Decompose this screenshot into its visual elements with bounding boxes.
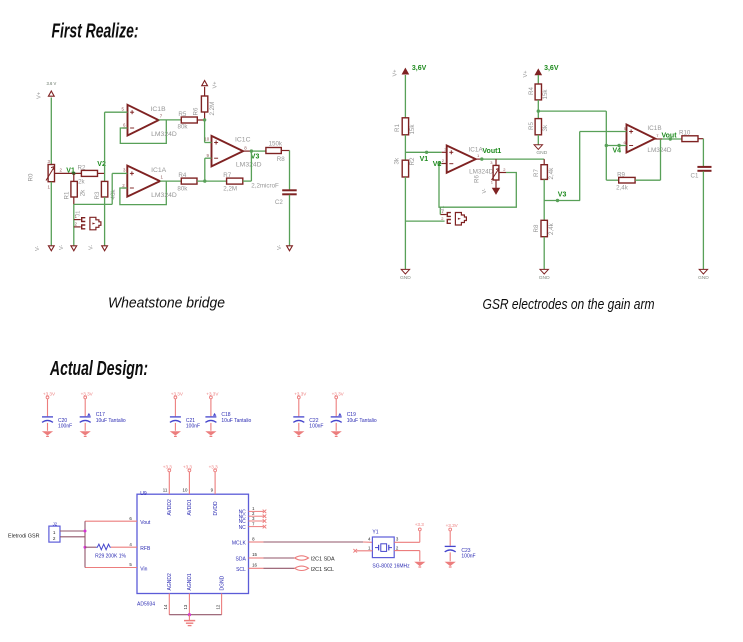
svg-text:10uF Tantalio: 10uF Tantalio	[347, 418, 377, 424]
svg-text:LM324D: LM324D	[151, 192, 177, 199]
svg-text:3.6 V: 3.6 V	[47, 81, 57, 86]
svg-text:First Realize:: First Realize:	[52, 20, 139, 43]
svg-text:Vout1: Vout1	[482, 148, 501, 155]
svg-text:+3.3V: +3.3V	[43, 392, 56, 397]
svg-text:15k: 15k	[542, 89, 549, 100]
svg-text:V-: V-	[277, 245, 283, 250]
svg-text:R9: R9	[617, 171, 625, 178]
svg-text:V+: V+	[213, 82, 219, 89]
svg-text:+3.3V: +3.3V	[446, 523, 459, 528]
svg-text:2k: 2k	[78, 178, 85, 185]
svg-text:V2: V2	[433, 161, 442, 168]
svg-text:2,4k: 2,4k	[548, 222, 555, 235]
svg-text:V1: V1	[420, 156, 429, 163]
svg-text:Eletrodi GSR: Eletrodi GSR	[8, 534, 40, 540]
svg-text:V-: V-	[89, 245, 95, 250]
svg-text:Vin: Vin	[140, 567, 147, 573]
svg-text:DVDD: DVDD	[213, 501, 219, 516]
svg-text:R6: R6	[192, 107, 199, 115]
svg-text:IC1A: IC1A	[151, 167, 167, 174]
svg-text:AGND2: AGND2	[167, 573, 173, 590]
svg-text:+3.3V: +3.3V	[206, 392, 219, 397]
svg-text:R8: R8	[277, 156, 285, 163]
svg-text:GND: GND	[539, 275, 550, 281]
svg-text:V-: V-	[482, 188, 488, 193]
svg-text:3,6V: 3,6V	[412, 65, 427, 72]
svg-text:V4: V4	[613, 148, 622, 155]
svg-text:11: 11	[163, 488, 168, 493]
svg-text:10: 10	[183, 488, 188, 493]
svg-text:3,6V: 3,6V	[544, 65, 559, 72]
svg-text:12: 12	[215, 604, 220, 609]
svg-text:IC1B: IC1B	[647, 125, 661, 132]
svg-text:Y1: Y1	[372, 529, 378, 535]
svg-text:13: 13	[183, 604, 188, 609]
svg-text:R4: R4	[178, 172, 186, 179]
svg-text:3k: 3k	[542, 124, 549, 131]
svg-text:R8: R8	[533, 224, 540, 232]
svg-text:I2C1 SDA: I2C1 SDA	[311, 557, 335, 563]
svg-text:R5: R5	[528, 122, 535, 130]
svg-text:+3.3V: +3.3V	[81, 392, 94, 397]
svg-text:V3: V3	[251, 154, 260, 161]
svg-text:R1: R1	[64, 191, 71, 199]
svg-text:15: 15	[252, 552, 257, 557]
svg-text:+3.3V: +3.3V	[332, 392, 345, 397]
svg-text:AVDD2: AVDD2	[167, 499, 173, 516]
svg-text:AD5934: AD5934	[137, 601, 155, 607]
svg-text:+3.3: +3.3	[415, 522, 425, 527]
svg-text:Wheatstone bridge: Wheatstone bridge	[108, 296, 225, 312]
svg-text:R4: R4	[528, 87, 535, 95]
svg-text:2,2M: 2,2M	[223, 185, 237, 192]
svg-text:V+: V+	[37, 92, 43, 99]
svg-text:10uF Tantalio: 10uF Tantalio	[221, 418, 251, 424]
svg-text:SCL: SCL	[236, 567, 246, 573]
svg-text:GSR electrodes on the gain arm: GSR electrodes on the gain arm	[483, 297, 655, 313]
svg-text:J2: J2	[53, 521, 58, 526]
svg-text:R2: R2	[78, 164, 86, 171]
svg-text:DGND: DGND	[219, 575, 225, 590]
svg-text:I2C1 SCL: I2C1 SCL	[311, 567, 334, 573]
svg-text:80k: 80k	[177, 186, 188, 193]
svg-text:2,4k: 2,4k	[616, 184, 629, 191]
svg-text:80k: 80k	[178, 123, 189, 130]
svg-text:NC: NC	[239, 525, 247, 531]
svg-text:GND: GND	[400, 275, 411, 281]
svg-text:1: 1	[53, 530, 56, 535]
svg-text:V-: V-	[59, 245, 65, 250]
svg-text:R3: R3	[94, 191, 101, 199]
svg-text:2,2microF: 2,2microF	[251, 183, 279, 190]
svg-text:V3: V3	[558, 191, 567, 198]
svg-text:2k: 2k	[79, 189, 86, 196]
svg-text:R0: R0	[28, 173, 35, 181]
svg-text:IC1C: IC1C	[235, 136, 251, 143]
svg-text:100nF: 100nF	[309, 423, 323, 429]
svg-text:R29 200K 1%: R29 200K 1%	[95, 553, 126, 559]
svg-text:Vout: Vout	[662, 132, 678, 139]
svg-text:R6: R6	[474, 175, 481, 183]
svg-text:+3.3V: +3.3V	[294, 392, 307, 397]
svg-text:SDA: SDA	[236, 557, 247, 563]
svg-text:C2: C2	[275, 199, 283, 206]
svg-text:R10: R10	[679, 129, 691, 136]
svg-text:14: 14	[163, 604, 168, 609]
svg-text:C1: C1	[691, 173, 699, 180]
svg-text:+3.3V: +3.3V	[171, 392, 184, 397]
svg-text:2.2M: 2.2M	[209, 102, 216, 116]
svg-text:+3.3: +3.3	[163, 464, 173, 469]
svg-text:R1: R1	[394, 124, 401, 132]
svg-text:100nF: 100nF	[186, 423, 200, 429]
svg-text:16: 16	[252, 563, 257, 568]
svg-text:MCLK: MCLK	[232, 540, 247, 546]
svg-text:+3.3: +3.3	[183, 464, 193, 469]
svg-text:U9: U9	[140, 491, 147, 497]
svg-text:3k: 3k	[393, 157, 400, 164]
svg-text:GND: GND	[698, 275, 709, 281]
svg-text:Actual Design:: Actual Design:	[49, 357, 148, 380]
svg-text:R2: R2	[409, 157, 416, 165]
svg-text:R5: R5	[178, 111, 186, 118]
svg-text:40k: 40k	[110, 189, 117, 200]
svg-text:LM324D: LM324D	[647, 147, 672, 154]
svg-text:+3.3: +3.3	[209, 464, 219, 469]
svg-text:10uF Tantalio: 10uF Tantalio	[96, 418, 126, 424]
svg-text:V-: V-	[35, 246, 41, 251]
svg-text:V+: V+	[393, 70, 399, 77]
svg-text:R7: R7	[533, 169, 540, 177]
svg-text:15k: 15k	[409, 124, 416, 135]
svg-text:100nF: 100nF	[461, 553, 475, 559]
svg-text:AGND1: AGND1	[187, 573, 193, 590]
svg-text:LM324D: LM324D	[151, 131, 177, 138]
svg-text:SG-8002 16MHz: SG-8002 16MHz	[372, 563, 410, 569]
svg-text:RFB: RFB	[140, 546, 151, 552]
svg-text:150k: 150k	[269, 141, 283, 148]
svg-text:LM324D: LM324D	[236, 161, 262, 168]
svg-text:R7: R7	[223, 172, 231, 179]
svg-text:2,4k: 2,4k	[548, 167, 555, 180]
svg-text:2: 2	[53, 536, 56, 541]
svg-text:Vout: Vout	[140, 520, 151, 526]
svg-text:100nF: 100nF	[58, 423, 72, 429]
svg-text:V+: V+	[523, 71, 529, 78]
svg-text:IC1B: IC1B	[151, 106, 167, 113]
svg-text:10: 10	[204, 137, 209, 142]
svg-text:LM324D: LM324D	[469, 169, 494, 176]
svg-text:IC1A: IC1A	[469, 146, 484, 153]
svg-text:GND: GND	[536, 150, 547, 156]
svg-text:AVDD1: AVDD1	[187, 499, 193, 516]
